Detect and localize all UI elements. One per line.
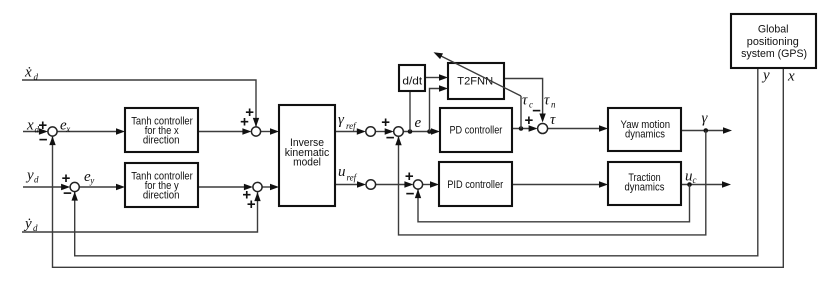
wire e to d/dt [409,91,411,132]
wire S5 to S6 [375,131,385,133]
svg-text:x: x [65,124,70,134]
wire ẋd arrow into S3 top [253,118,259,127]
wire xd input [23,131,40,133]
svg-text:e: e [415,115,422,131]
svg-text:ẏ: ẏ [23,216,32,232]
svg-text:τ: τ [550,112,556,128]
svg-text:dynamics: dynamics [625,129,665,141]
summing junction S9 [538,124,548,134]
svg-text:d: d [33,223,38,233]
svg-text:−: − [39,132,48,149]
summing junction S2 [70,182,79,191]
wire S7 to S8 [376,184,406,186]
svg-text:−: − [532,103,541,120]
wire u_c feedback to S8 [418,185,690,222]
block Tanh controller x [125,108,198,152]
wire S1 to Tanh x [57,131,117,133]
svg-text:T2FNN: T2FNN [457,76,493,88]
wire e to T2FNN lower input [430,89,441,132]
svg-text:u: u [338,164,346,180]
svg-text:d/dt: d/dt [402,75,423,87]
svg-text:−: − [63,185,72,202]
summing junction S4 [253,182,262,191]
wire T2FNN output tau_n down into S9 [504,79,543,115]
node e dot 1 [408,129,413,134]
summing junction S6 [394,127,404,137]
svg-text:PD controller: PD controller [449,124,502,136]
svg-text:n: n [551,100,556,110]
wire adaptation diagonal arrow through T2FNN [441,56,522,96]
node S5 circle [366,127,376,137]
block Global positioning system (GPS) [731,14,816,68]
svg-text:dynamics: dynamics [625,182,665,194]
wire gamma_ref IKM to S5 [335,131,358,133]
svg-text:−: − [406,186,415,203]
block d/dt [399,65,425,91]
svg-text:y: y [761,68,770,84]
wire y feedback from GPS to S2 [75,68,758,256]
svg-text:x: x [787,69,795,85]
wire PD controller output tau_c to S9 [512,128,530,130]
wire u_c output of Traction dynamics [681,184,723,186]
svg-text:+: + [247,196,256,213]
svg-text:Global: Global [758,24,789,36]
svg-text:ref: ref [347,173,358,183]
wire e line S6 to PD controller [403,131,432,133]
wire Tanh x to S3 [198,131,243,133]
svg-text:ref: ref [346,121,357,131]
svg-text:d: d [34,72,39,82]
block Yaw motion dynamics [608,108,681,151]
block PD controller [440,108,512,152]
svg-text:y: y [25,168,34,184]
wire PID controller to Traction dynamics [512,184,600,186]
wire d/dt to T2FNN [425,77,440,79]
svg-text:PID controller: PID controller [447,179,503,191]
svg-text:direction: direction [143,189,180,201]
block Traction dynamics [608,162,681,205]
wire gamma output of Yaw motion dynamics [681,130,724,132]
svg-text:model: model [293,157,321,169]
summing junction S1 [48,127,57,136]
summing junction S3 [251,127,260,136]
block T2FNN [448,63,504,99]
wire S4 to Inverse kinematic model [262,186,271,188]
svg-text:positioning: positioning [747,36,799,48]
wire xd_dot input line [22,80,256,127]
wire adaptation riser from tau_c dot [520,96,522,129]
block Inverse kinematic model [279,105,335,206]
svg-text:ẋ: ẋ [24,65,32,81]
svg-text:x: x [26,117,34,133]
node gamma dot [704,128,709,133]
wire S2 to Tanh y [79,186,117,188]
wire yd_dot input line into S4 bottom [22,192,258,232]
node u_c dot [687,182,692,187]
summing junction S8 [413,180,422,189]
svg-text:system (GPS): system (GPS) [741,48,807,60]
wire gamma feedback to S6 [399,131,706,235]
node S7 circle [366,180,376,190]
wire u_ref IKM to S7 [335,184,358,186]
wire Tanh y to S4 [198,186,245,188]
node e dot 2 [427,129,432,134]
svg-text:τ: τ [522,93,528,109]
svg-text:−: − [386,130,395,147]
svg-text:+: + [405,168,414,185]
svg-text:d: d [34,175,39,185]
wire S9 to Yaw motion dynamics [548,128,600,130]
svg-text:u: u [685,169,693,185]
svg-text:c: c [693,175,697,185]
wire S3 to Inverse kinematic model [261,131,271,133]
wire yd input [23,186,62,188]
svg-text:+: + [381,114,390,131]
svg-text:τ: τ [544,93,550,109]
wire S8 to PID controller [423,184,431,186]
block Tanh controller y [125,163,198,207]
svg-text:+: + [240,114,249,131]
svg-text:y: y [89,176,94,186]
block PID controller [439,162,512,206]
svg-text:direction: direction [143,135,180,147]
node tau_c dot [519,126,524,131]
wire x feedback from GPS to S1 [53,68,784,267]
